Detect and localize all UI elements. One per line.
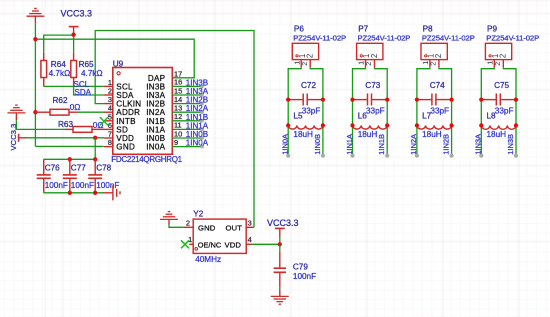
svg-text:1IN2B: 1IN2B bbox=[442, 134, 451, 155]
junction VDD/decoupling branch bbox=[93, 136, 97, 140]
svg-text:R62: R62 bbox=[53, 96, 68, 105]
svg-text:P9: P9 bbox=[487, 25, 497, 34]
pad P7 right bbox=[385, 154, 389, 158]
pin 9 IN0A wire bbox=[172, 146, 202, 148]
pad pin 11 bbox=[200, 128, 204, 132]
svg-text:C76: C76 bbox=[45, 164, 60, 173]
wire SDA bbox=[74, 87, 104, 95]
wire VCC to R64/R65 tops bbox=[44, 35, 74, 53]
svg-text:OE/NC: OE/NC bbox=[198, 240, 222, 249]
svg-text:18uH: 18uH bbox=[358, 130, 378, 139]
capacitor C75 bbox=[481, 99, 496, 101]
junction rail/R62 bbox=[33, 110, 37, 114]
svg-text:SDA: SDA bbox=[75, 88, 92, 97]
capacitor C78 bbox=[94, 159, 96, 175]
connector P9 pin 2 stub bbox=[502, 60, 504, 68]
wire pin8 GND horizontal bbox=[35, 145, 103, 147]
no-connect X on pin 5 INTB bbox=[100, 117, 108, 125]
inductor L8 bbox=[481, 125, 516, 129]
svg-text:1IN0A: 1IN0A bbox=[281, 134, 290, 155]
svg-text:9: 9 bbox=[174, 138, 178, 147]
svg-text:P6: P6 bbox=[294, 25, 304, 34]
power symbol VCC3.3 bar (middle) bbox=[275, 227, 285, 229]
capacitor C76 bbox=[43, 159, 45, 175]
svg-text:VCC3.3: VCC3.3 bbox=[61, 8, 93, 18]
junction C73 left bbox=[350, 97, 354, 101]
svg-text:33pF: 33pF bbox=[495, 106, 514, 115]
svg-text:1IN1A: 1IN1A bbox=[345, 134, 354, 155]
junction L5 right bbox=[321, 123, 325, 127]
pad pin 13 bbox=[200, 110, 204, 114]
junction C78 top bbox=[93, 157, 97, 161]
junction L8 right bbox=[514, 123, 518, 127]
svg-text:100nF: 100nF bbox=[96, 181, 119, 190]
wire R62 to ADDR pin 4 bbox=[78, 111, 105, 113]
svg-text:C78: C78 bbox=[96, 164, 111, 173]
svg-text:C72: C72 bbox=[301, 81, 316, 90]
connector P7 pin 1 stub bbox=[365, 60, 367, 68]
svg-text:18uH: 18uH bbox=[293, 130, 313, 139]
svg-text:Y2: Y2 bbox=[193, 209, 203, 218]
junction L8 left bbox=[479, 123, 483, 127]
svg-text:33pF: 33pF bbox=[430, 106, 449, 115]
pin 2 SDA (left stub) bbox=[104, 94, 113, 96]
connector P7 body bbox=[357, 43, 383, 59]
capacitor C74 bbox=[417, 99, 432, 101]
svg-text:OUT: OUT bbox=[225, 223, 242, 232]
svg-text:4.7kΩ: 4.7kΩ bbox=[49, 69, 71, 78]
svg-text:VCC3.3: VCC3.3 bbox=[9, 124, 18, 151]
svg-text:FDC2214QRGHRQ1: FDC2214QRGHRQ1 bbox=[111, 155, 182, 164]
svg-text:4: 4 bbox=[248, 235, 252, 244]
junction C75 right bbox=[514, 97, 518, 101]
ground GND1 stem bbox=[34, 16, 36, 23]
wire SCL bbox=[44, 85, 104, 87]
capacitor C72 bbox=[288, 99, 303, 101]
junction VCC3.3/R65 bbox=[71, 33, 75, 37]
svg-text:1IN1B: 1IN1B bbox=[377, 134, 386, 155]
junction C75 left bbox=[479, 97, 483, 101]
wire VCC stem to junction bbox=[279, 237, 281, 244]
connector P7 pin 2 stub bbox=[374, 60, 376, 68]
oscillator Y2 body bbox=[193, 219, 246, 253]
wire Y2 VDD to VCC3.3 bbox=[252, 243, 280, 245]
pad pin 16 bbox=[200, 85, 204, 89]
connector P6 body bbox=[292, 43, 318, 59]
svg-text:1IN3A: 1IN3A bbox=[474, 134, 483, 155]
connector P6 pin 2 stub bbox=[309, 60, 311, 68]
junction L5 left bbox=[286, 123, 290, 127]
svg-text:C77: C77 bbox=[71, 164, 86, 173]
svg-text:2: 2 bbox=[370, 54, 379, 58]
wire capacitor bottom rail bbox=[44, 192, 103, 194]
wire clock: CLKIN to Y2 OUT bbox=[95, 31, 254, 228]
svg-text:8: 8 bbox=[108, 138, 112, 147]
svg-text:2: 2 bbox=[429, 62, 438, 66]
junction ground/DAP bbox=[33, 37, 37, 41]
pin 12 IN1B wire bbox=[172, 120, 202, 122]
capacitor C77 bbox=[69, 159, 71, 175]
pin 8 GND (left stub) bbox=[104, 146, 113, 148]
svg-text:C74: C74 bbox=[430, 81, 445, 90]
pin 15 IN3A wire bbox=[172, 94, 202, 96]
junction C77 bottom bbox=[68, 191, 72, 195]
resistor R63 bbox=[65, 128, 73, 130]
svg-text:PZ254V-11-02P: PZ254V-11-02P bbox=[293, 33, 346, 42]
capacitor C79 bbox=[279, 244, 281, 252]
svg-text:GND: GND bbox=[116, 143, 135, 152]
junction L7 right bbox=[449, 123, 453, 127]
wire DAP net: ground junction to pin 17 bbox=[35, 39, 194, 78]
svg-text:VDD: VDD bbox=[224, 240, 241, 249]
wire to ground (caps) bbox=[103, 192, 113, 194]
svg-text:P8: P8 bbox=[423, 25, 433, 34]
svg-text:L8: L8 bbox=[487, 112, 497, 121]
ground GND3 stem bbox=[168, 219, 170, 224]
svg-text:1IN3B: 1IN3B bbox=[506, 134, 515, 155]
wire VDD branch down to capacitor rail bbox=[94, 138, 96, 160]
wire P9 pin2 to right rail bbox=[503, 67, 516, 155]
wire P6 pin2 to right rail bbox=[310, 67, 323, 155]
wire P8 pin2 to right rail bbox=[439, 67, 452, 155]
wire P7 pin2 to right rail bbox=[375, 67, 388, 155]
svg-text:40MHz: 40MHz bbox=[195, 255, 221, 264]
pin 3 CLKIN (left stub) bbox=[104, 103, 113, 105]
wire P9 pin1 to left rail bbox=[481, 67, 494, 155]
svg-text:C79: C79 bbox=[293, 262, 308, 271]
pad pin 9 bbox=[200, 145, 204, 149]
svg-text:PZ254V-11-02P: PZ254V-11-02P bbox=[422, 33, 475, 42]
capacitor C73 bbox=[353, 99, 368, 101]
wire R65 top from VCC junction bbox=[73, 35, 75, 53]
junction C73 right bbox=[385, 97, 389, 101]
svg-text:18uH: 18uH bbox=[422, 130, 442, 139]
pad pin 10 bbox=[200, 136, 204, 140]
pin 7 VDD (left stub) bbox=[104, 137, 113, 139]
junction C77 top bbox=[68, 157, 72, 161]
IC U9 FDC2214QRGHRQ1 body bbox=[113, 68, 173, 155]
resistor R64 bbox=[43, 53, 45, 61]
junction C72 right bbox=[321, 97, 325, 101]
pad pin 15 bbox=[200, 93, 204, 97]
svg-text:L6: L6 bbox=[358, 112, 368, 121]
inductor L6 bbox=[353, 125, 388, 129]
svg-text:C73: C73 bbox=[365, 81, 380, 90]
connector P6 pin 1 stub bbox=[300, 60, 302, 68]
connector P8 body bbox=[421, 43, 447, 59]
svg-text:2: 2 bbox=[434, 54, 443, 58]
pad pin 12 bbox=[200, 119, 204, 123]
pad P8 left bbox=[415, 154, 419, 158]
pin 5 INTB (left stub) bbox=[104, 120, 113, 122]
svg-text:33pF: 33pF bbox=[366, 106, 385, 115]
resistor R65 bbox=[73, 53, 75, 61]
pin 16 IN3B wire bbox=[172, 85, 202, 87]
junction C78 bottom bbox=[93, 191, 97, 195]
svg-text:100nF: 100nF bbox=[293, 272, 316, 281]
wire ground rail vertical x=35.4 bbox=[34, 23, 36, 146]
svg-text:2: 2 bbox=[493, 62, 502, 66]
pad P7 left bbox=[350, 154, 354, 158]
svg-text:GND: GND bbox=[198, 223, 216, 232]
svg-text:1: 1 bbox=[188, 235, 192, 244]
junction C74 left bbox=[415, 97, 419, 101]
svg-text:P7: P7 bbox=[358, 25, 368, 34]
connector P8 pin 2 stub bbox=[438, 60, 440, 68]
ground GND2 (left) bbox=[7, 105, 25, 113]
connector P9 body bbox=[485, 43, 511, 59]
pin 2 GND of Y2 bbox=[183, 226, 193, 228]
svg-text:0Ω: 0Ω bbox=[70, 103, 81, 112]
pin 4 VDD of Y2 bbox=[246, 243, 251, 245]
svg-text:VCC3.3: VCC3.3 bbox=[267, 218, 299, 228]
pin 1 SCL (left stub) bbox=[104, 85, 113, 87]
svg-text:4.7kΩ: 4.7kΩ bbox=[81, 69, 103, 78]
ground GND5 (capacitor rail, sideways) bbox=[113, 185, 120, 200]
junction L6 left bbox=[350, 123, 354, 127]
wire GND2 to R63 bbox=[16, 120, 65, 129]
svg-text:C75: C75 bbox=[494, 81, 509, 90]
wire VCC3.3 to VDD pin 7 bbox=[27, 137, 105, 139]
svg-text:R63: R63 bbox=[58, 120, 73, 129]
ground GND4 (C79) bbox=[271, 296, 289, 304]
svg-text:1IN0A: 1IN0A bbox=[186, 139, 209, 148]
svg-text:1IN2A: 1IN2A bbox=[409, 134, 418, 155]
svg-text:PZ254V-11-02P: PZ254V-11-02P bbox=[358, 33, 411, 42]
pad P6 right bbox=[321, 154, 325, 158]
svg-text:3: 3 bbox=[248, 218, 252, 227]
pad P9 right bbox=[514, 154, 518, 158]
svg-text:2: 2 bbox=[499, 54, 508, 58]
pad P6 left bbox=[286, 154, 290, 158]
pin 14 IN2B wire bbox=[172, 103, 202, 105]
wire P8 pin1 to left rail bbox=[417, 67, 430, 155]
wire capacitor top rail bbox=[44, 158, 95, 160]
svg-text:33pF: 33pF bbox=[302, 106, 321, 115]
svg-text:IN0A: IN0A bbox=[146, 143, 165, 152]
pin 4 ADDR (left stub) bbox=[104, 111, 113, 113]
pin 6 SD (left stub) bbox=[104, 128, 113, 130]
junction C74 right bbox=[449, 97, 453, 101]
ground GND3 (Y2) bbox=[160, 212, 178, 220]
junction C72 left bbox=[286, 97, 290, 101]
svg-text:2: 2 bbox=[300, 62, 309, 66]
junction L6 right bbox=[385, 123, 389, 127]
svg-text:L5: L5 bbox=[293, 112, 303, 121]
pad P9 left bbox=[479, 154, 483, 158]
pin 1 OE/NC of Y2 bbox=[189, 243, 193, 245]
pin 13 IN2A wire bbox=[172, 111, 202, 113]
wire P7 pin1 to left rail bbox=[353, 67, 366, 155]
svg-text:18uH: 18uH bbox=[487, 130, 507, 139]
resistor R62 bbox=[35, 111, 50, 113]
junction VCC/C79 bbox=[278, 242, 282, 246]
connector P8 pin 1 stub bbox=[429, 60, 431, 68]
connector P9 pin 1 stub bbox=[493, 60, 495, 68]
pad P8 right bbox=[450, 154, 454, 158]
no-connect X on pin 1 bbox=[181, 240, 189, 248]
svg-text:2: 2 bbox=[306, 54, 315, 58]
wire GND3 to Y2 pin 2 bbox=[169, 225, 183, 228]
wire P6 pin1 to left rail bbox=[288, 67, 301, 155]
ground GND1 (top left) bbox=[26, 8, 44, 16]
pad pin 14 bbox=[200, 102, 204, 106]
svg-text:1IN0B: 1IN0B bbox=[313, 134, 322, 155]
svg-text:100nF: 100nF bbox=[71, 181, 94, 190]
svg-text:2: 2 bbox=[186, 218, 190, 227]
svg-text:U9: U9 bbox=[113, 60, 124, 69]
svg-text:2: 2 bbox=[364, 62, 373, 66]
pin 3 OUT of Y2 bbox=[246, 226, 254, 228]
svg-text:L7: L7 bbox=[422, 112, 432, 121]
pin 11 IN1A wire bbox=[172, 128, 202, 130]
inductor L5 bbox=[288, 125, 323, 129]
svg-text:100nF: 100nF bbox=[45, 181, 68, 190]
ground GND2 stem bbox=[15, 113, 17, 120]
svg-text:0Ω: 0Ω bbox=[93, 121, 104, 130]
junction L7 left bbox=[415, 123, 419, 127]
power symbol VCC3.3 bar bbox=[69, 26, 79, 28]
pin 10 IN0B wire bbox=[172, 137, 202, 139]
svg-text:PZ254V-11-02P: PZ254V-11-02P bbox=[486, 33, 539, 42]
inductor L7 bbox=[417, 125, 452, 129]
